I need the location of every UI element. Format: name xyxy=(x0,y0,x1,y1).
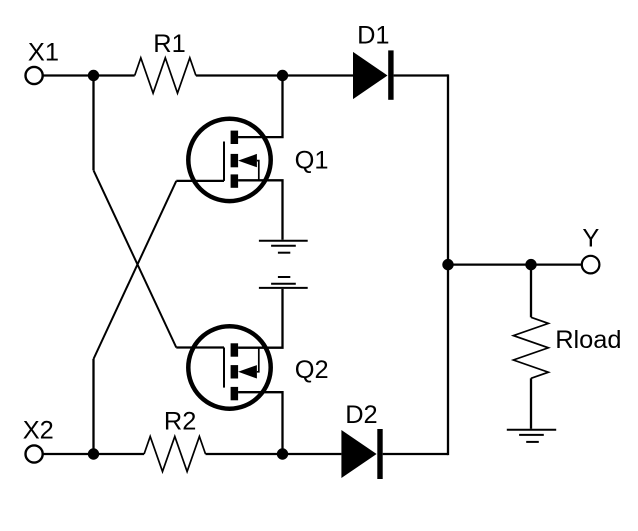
junction output node xyxy=(442,259,453,270)
wire right rail xyxy=(447,74,449,455)
junction node X1 xyxy=(88,70,99,81)
wire R2 to D2 xyxy=(206,453,342,455)
transistor Q2 xyxy=(188,326,270,408)
svg-text:Rload: Rload xyxy=(555,326,621,354)
wire X2 to R2 xyxy=(43,453,144,455)
svg-text:D1: D1 xyxy=(357,22,389,50)
wire R1 to D1 xyxy=(196,74,353,76)
junction bottom node xyxy=(277,448,288,459)
svg-text:Q2: Q2 xyxy=(295,356,329,384)
wire diagonal X2 to Q1 gate xyxy=(94,181,177,359)
wire Q2 drain to bottom node xyxy=(238,392,282,454)
junction top node xyxy=(277,70,288,81)
wire Q1 source to ground xyxy=(238,180,282,240)
wire Rload to ground xyxy=(530,378,532,429)
diode D1 xyxy=(353,50,394,99)
wire D2 to right rail xyxy=(383,453,448,455)
svg-text:R2: R2 xyxy=(164,408,196,436)
wire ground to Q2 source xyxy=(238,289,282,348)
terminal Y xyxy=(582,256,600,274)
svg-text:D2: D2 xyxy=(345,401,377,429)
junction node X2 xyxy=(88,448,99,459)
wire Q2 gate lead xyxy=(176,346,224,348)
wire Q1 drain to top node xyxy=(238,76,282,138)
terminal X2 xyxy=(25,445,42,462)
wire D1 to right rail xyxy=(394,74,448,76)
wire X1 to R1 xyxy=(43,74,135,76)
resistor R2 xyxy=(144,437,205,472)
ground Q2 source (inverted) xyxy=(259,277,308,288)
svg-text:X2: X2 xyxy=(23,417,54,445)
transistor Q1 xyxy=(188,119,270,201)
wire Y node to Rload xyxy=(530,265,532,318)
wire Q1 gate lead xyxy=(176,180,224,182)
junction Rload node xyxy=(525,259,536,270)
terminal X1 xyxy=(25,67,42,84)
svg-text:R1: R1 xyxy=(153,30,185,58)
wire output to Y xyxy=(448,263,582,265)
resistor Rload xyxy=(513,317,548,378)
wire X2 branch up xyxy=(92,359,94,454)
diode D2 xyxy=(341,429,382,479)
svg-text:Q1: Q1 xyxy=(295,147,329,175)
ground Q1 source xyxy=(259,241,308,253)
wire X1 branch down xyxy=(92,76,94,171)
svg-text:Y: Y xyxy=(582,224,599,252)
svg-text:X1: X1 xyxy=(28,39,59,67)
ground Rload xyxy=(507,430,556,442)
wire diagonal X1 to Q2 gate xyxy=(94,170,177,347)
resistor R1 xyxy=(135,58,196,93)
